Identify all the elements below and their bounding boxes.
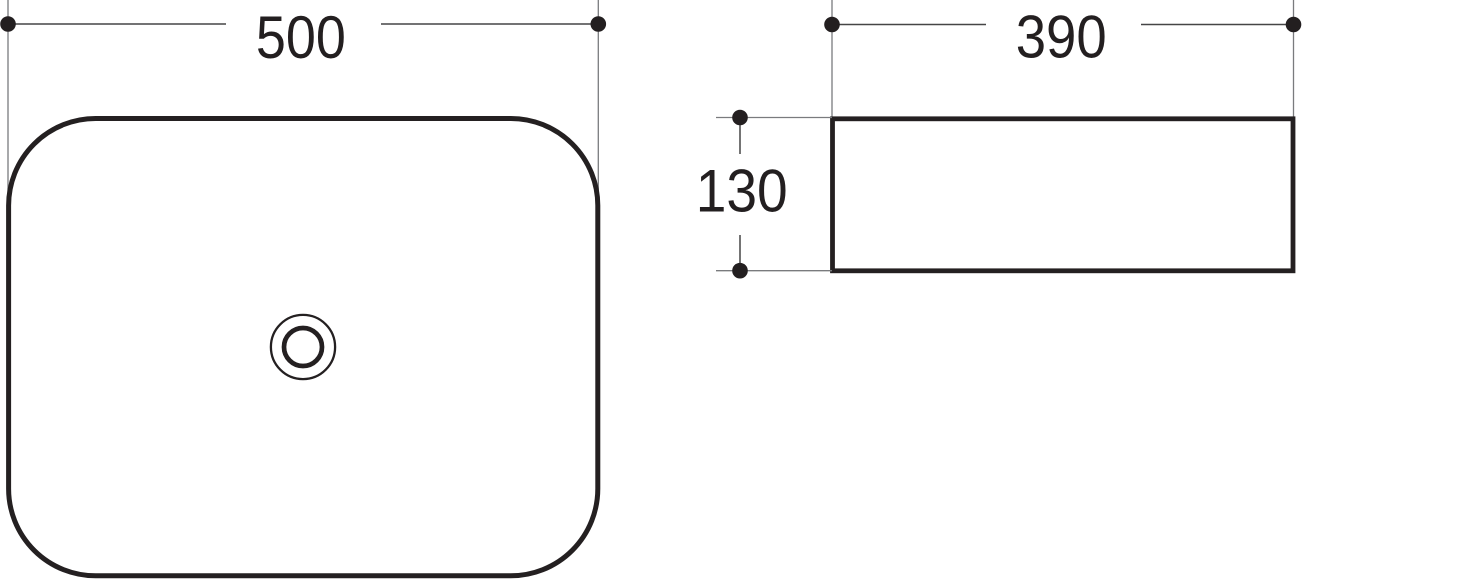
- dimension line 390 left segment: [832, 24, 986, 26]
- extension line right of 390 dimension: [1293, 0, 1295, 119]
- dimension dot 130 bottom: [732, 263, 748, 279]
- 130 dimension bottom extension line: [716, 270, 832, 272]
- 130 dimension top extension line: [716, 117, 832, 119]
- svg-text:500: 500: [256, 4, 346, 71]
- dimension dot 130 top: [732, 110, 748, 126]
- 130 dimension line upper segment: [739, 118, 741, 155]
- svg-text:130: 130: [696, 158, 788, 225]
- dimension line 390 right segment: [1141, 24, 1294, 26]
- extension line right of 500 dimension: [597, 0, 599, 207]
- svg-text:390: 390: [1016, 3, 1107, 70]
- dimension dot 500 left: [0, 16, 16, 32]
- extension line left of 390 dimension: [831, 0, 833, 119]
- dimension dot 500 right: [591, 16, 607, 32]
- basin side view outline: [833, 119, 1294, 271]
- drain outer circle: [271, 315, 335, 379]
- extension line left of 500 dimension: [7, 0, 9, 207]
- basin top view outline: [9, 119, 598, 576]
- dimension line 500 right segment: [381, 23, 598, 25]
- drain inner circle: [284, 328, 322, 366]
- dimension dot 390 left: [824, 17, 840, 33]
- dimension dot 390 right: [1286, 17, 1302, 33]
- 130 dimension line lower segment: [739, 235, 741, 271]
- dimension line 500 left segment: [8, 23, 226, 25]
